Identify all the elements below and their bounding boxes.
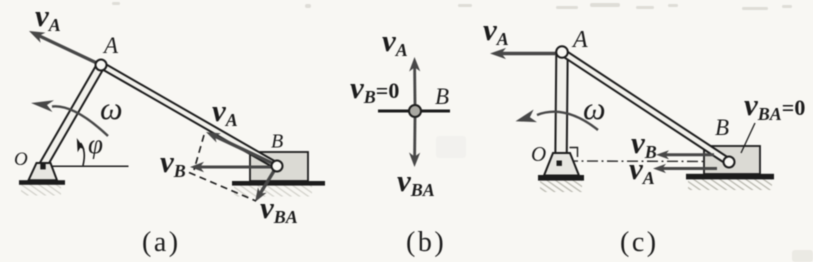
slider block B (c) <box>704 146 760 174</box>
translated velocity vector v_A at B (c) <box>653 164 717 173</box>
ground bar at O (a) <box>19 180 65 185</box>
pin joint B (a) <box>272 161 283 172</box>
connecting rod AB (c) <box>560 49 731 164</box>
dashed parallelogram side parallel to v_BA (a) <box>194 135 204 170</box>
angular velocity arc omega (c) <box>516 110 599 131</box>
svg-text:B: B <box>435 84 449 109</box>
right angle mark at O (c) <box>570 148 578 158</box>
horizontal reference line from O (a) <box>47 165 129 167</box>
angular velocity arc omega (a) <box>31 100 108 136</box>
velocity vector v_A at A (c) <box>490 48 556 59</box>
relative velocity vector v_BA at B (a) <box>255 166 277 202</box>
ground bar at O (c) <box>538 175 584 181</box>
pin joint A (a) <box>96 60 107 71</box>
velocity vector v_B at B (c) <box>656 150 714 159</box>
velocity vector v_A upward (b) <box>409 57 420 104</box>
svg-text:φ: φ <box>88 129 103 159</box>
velocity vector v_BA downward (b) <box>409 118 420 167</box>
pin joint B (c) <box>724 157 735 168</box>
svg-text:(a): (a) <box>142 227 181 258</box>
angle phi arc (a) <box>77 138 85 166</box>
svg-text:A: A <box>571 27 588 53</box>
hatched ground at O (c) <box>540 180 582 192</box>
svg-text:B: B <box>271 131 283 153</box>
ground bar under slider (a) <box>232 181 325 186</box>
slider block B (a) <box>250 152 308 181</box>
hatched ground under slider (a) <box>234 186 312 197</box>
pin support at O (a) <box>29 163 58 180</box>
dash-dot center line OB (c) <box>567 160 727 163</box>
svg-text:O: O <box>531 142 546 166</box>
translated velocity vector v_A at B (a) <box>206 132 273 164</box>
leader line from label v_BA=0 to slider (c) <box>741 123 755 153</box>
pin at O (a) <box>40 164 45 169</box>
crank OA (a) <box>40 63 105 168</box>
connecting rod AB (a) <box>100 62 279 168</box>
svg-text:(c): (c) <box>620 227 659 258</box>
point B (b) <box>409 105 421 117</box>
pin at O (c) <box>557 161 562 166</box>
velocity vector v_B at B (a) <box>190 162 275 172</box>
svg-text:O: O <box>14 149 28 170</box>
svg-text:B: B <box>715 115 729 140</box>
dashed parallelogram side parallel to v_A (a) <box>189 173 256 202</box>
pin support at O (c) <box>544 153 579 176</box>
svg-text:ω: ω <box>100 90 123 126</box>
svg-text:A: A <box>102 33 119 58</box>
velocity vector v_A at A (a) <box>29 31 101 65</box>
svg-text:ω: ω <box>583 90 606 126</box>
svg-text:(b): (b) <box>406 227 446 258</box>
hatched ground under slider (c) <box>688 179 772 190</box>
hatched ground at O (a) <box>21 185 61 196</box>
crank OA (c) <box>555 52 567 160</box>
ground bar under slider (c) <box>686 174 774 180</box>
horizontal line through B (b) <box>378 110 450 113</box>
pin joint A (c) <box>556 46 568 58</box>
